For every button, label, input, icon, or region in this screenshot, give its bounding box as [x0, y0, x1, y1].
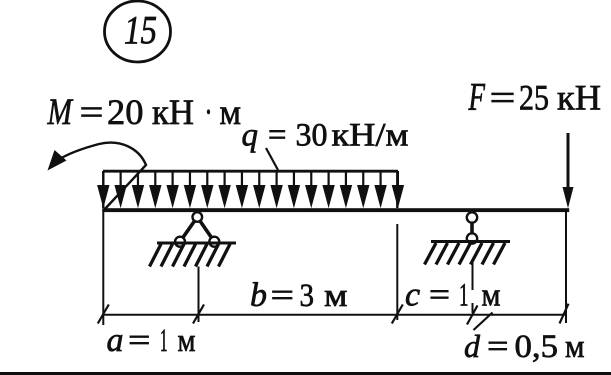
- svg-text:a: a: [107, 322, 124, 359]
- svg-text:=: =: [490, 78, 516, 118]
- svg-text:q: q: [242, 118, 259, 154]
- svg-text:м: м: [482, 278, 501, 314]
- svg-text:0,5: 0,5: [515, 329, 559, 365]
- svg-text:кН: кН: [557, 78, 601, 118]
- svg-text:15: 15: [124, 8, 157, 53]
- svg-text:=: =: [128, 323, 151, 359]
- svg-text:=: =: [487, 329, 509, 365]
- svg-text:1: 1: [459, 278, 469, 314]
- svg-text:м: м: [324, 278, 348, 314]
- svg-text:3: 3: [300, 278, 315, 314]
- svg-text:b: b: [250, 277, 267, 314]
- svg-text:M: M: [47, 92, 74, 133]
- svg-text:25: 25: [519, 78, 549, 118]
- svg-text:F: F: [468, 76, 486, 119]
- svg-text:=: =: [429, 278, 450, 314]
- svg-text:1: 1: [160, 323, 168, 359]
- svg-text:·: ·: [205, 92, 213, 132]
- svg-text:d: d: [464, 328, 481, 364]
- svg-text:кН/м: кН/м: [332, 118, 409, 154]
- svg-text:20: 20: [107, 92, 144, 132]
- svg-text:=: =: [271, 278, 295, 314]
- svg-text:м: м: [220, 92, 242, 132]
- svg-text:=: =: [268, 118, 287, 154]
- svg-text:=: =: [80, 92, 104, 132]
- svg-text:м: м: [178, 323, 196, 359]
- svg-text:c: c: [405, 277, 420, 314]
- svg-text:м: м: [565, 329, 585, 365]
- svg-text:кН: кН: [152, 92, 194, 132]
- svg-text:30: 30: [296, 118, 328, 154]
